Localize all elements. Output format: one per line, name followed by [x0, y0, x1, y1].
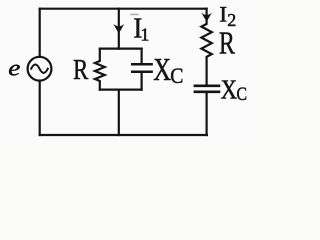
arrowhead I2 [201, 13, 212, 22]
svg-text:R: R [219, 27, 235, 62]
wire bottom rail [40, 134, 207, 136]
capacitor XC (right branch) top plate [195, 85, 219, 88]
wire left lower segment [39, 81, 41, 135]
arrowhead I1 [113, 24, 124, 34]
capacitor XC (right branch) bottom plate [195, 91, 219, 94]
label R middle [73, 54, 89, 86]
svg-text:I: I [219, 2, 227, 26]
label R right [219, 27, 235, 62]
label I2 [219, 2, 227, 26]
wire right branch upper + resistor R (right branch) [201, 9, 211, 85]
svg-text:R: R [73, 54, 89, 86]
svg-text:C: C [237, 83, 248, 105]
capacitor XC (middle) top plate [132, 63, 151, 66]
wire parallel-box bottom rail [100, 88, 142, 90]
wire top rail [40, 8, 207, 10]
svg-text:X: X [221, 74, 237, 104]
label e [8, 54, 20, 81]
wire middle branch upper [118, 9, 120, 49]
label I1 [133, 13, 142, 45]
label XC right [221, 74, 237, 104]
wire parallel-box top rail [100, 47, 142, 49]
wire right branch lower [206, 93, 208, 135]
wire middle branch lower [118, 90, 120, 135]
svg-text:X: X [153, 53, 171, 87]
label XC middle [153, 53, 171, 87]
capacitor XC (middle parallel branch) stubs [141, 49, 143, 64]
svg-text:e: e [8, 54, 20, 81]
AC source circle [28, 57, 52, 81]
capacitor XC (middle) bottom plate [132, 70, 151, 73]
print smudge above I1 [130, 14, 139, 16]
wire left upper segment [39, 9, 41, 57]
svg-text:1: 1 [140, 24, 149, 44]
AC source sine wave [31, 65, 48, 73]
svg-text:C: C [170, 63, 183, 88]
resistor R (middle parallel branch) [95, 49, 105, 90]
